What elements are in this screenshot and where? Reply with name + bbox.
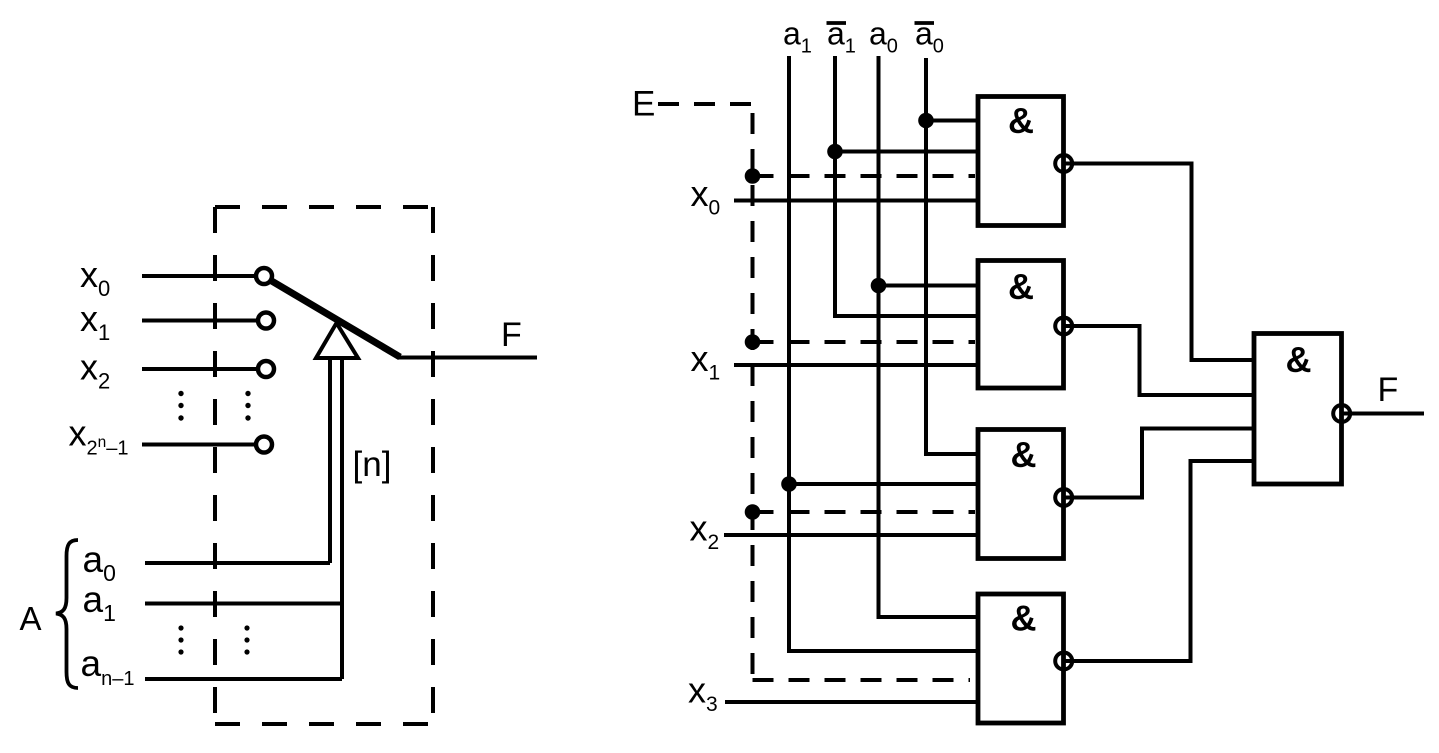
- wire G4 output to final gate: [1064, 461, 1255, 661]
- svg-text:x1: x1: [80, 298, 110, 345]
- contact circle x0: [256, 268, 272, 284]
- wire G1 output to final gate: [1064, 164, 1255, 361]
- junction dot a0 to G2: [871, 278, 887, 294]
- svg-text:&: &: [1008, 266, 1034, 307]
- inversion bubble G3 output: [1055, 489, 1072, 506]
- wire G2 output to final gate: [1064, 326, 1255, 395]
- junction dot a0-bar to G1: [918, 113, 934, 129]
- svg-text:a1: a1: [783, 16, 812, 58]
- dashed wire E branch to G1: [753, 174, 976, 178]
- svg-text:&: &: [1011, 434, 1037, 475]
- NAND gate G3 box: [978, 430, 1064, 559]
- vertical line a0 with bend into gate G4: [879, 56, 981, 617]
- dashed wire E branch to G3: [753, 510, 976, 514]
- selector arrow shaft left line: [328, 357, 332, 563]
- wire a0-bar tap to G1: [926, 119, 980, 123]
- svg-text:A: A: [20, 600, 42, 637]
- vertical line a1-bar with bend into gate G2: [835, 56, 980, 316]
- wire a1-bar tap to G1: [835, 150, 980, 154]
- dashed wire E horizontal: [658, 102, 753, 106]
- ellipsis dots between x2 and x2n-1 (left column): [178, 391, 183, 421]
- inversion bubble G5 output: [1333, 405, 1350, 422]
- wire x0 to G1: [734, 199, 980, 203]
- dashed enclosure box bottom edge: [215, 722, 433, 726]
- svg-text:x2: x2: [80, 347, 110, 394]
- ellipsis dots between a1 and an-1 (right column): [244, 625, 249, 654]
- ellipsis dots between a1 and an-1 (left column): [178, 625, 183, 654]
- contact circle x2: [258, 361, 274, 377]
- svg-text:x0: x0: [691, 173, 721, 220]
- vertical line a0-bar with bend into gate G3: [926, 58, 980, 454]
- wire x1 input: [142, 319, 256, 323]
- inversion bubble G4 output: [1055, 653, 1072, 670]
- wire G3 output to final gate: [1064, 429, 1255, 498]
- wire a0 input: [145, 561, 330, 565]
- junction dot E to G3: [745, 504, 761, 520]
- svg-text:a1: a1: [83, 579, 116, 626]
- wire x2 to G3: [724, 533, 980, 537]
- dashed enclosure box top edge: [215, 205, 433, 209]
- vertical line a1 with bend into gate G4: [789, 56, 980, 651]
- wire output F (left figure): [398, 356, 537, 360]
- svg-text:a0: a0: [869, 16, 898, 58]
- wire an-1 input: [145, 677, 342, 681]
- junction dot E to G2: [745, 334, 761, 350]
- selector arrow shaft right line: [340, 357, 344, 679]
- svg-text:&: &: [1011, 598, 1037, 639]
- wire a1 tap to G3: [789, 482, 980, 486]
- svg-text:F: F: [1378, 371, 1399, 409]
- dashed enclosure box right edge: [431, 207, 435, 724]
- dashed wire E vertical: [751, 104, 755, 680]
- svg-text:x2: x2: [690, 508, 720, 555]
- NAND gate G2 box: [978, 261, 1064, 389]
- dashed wire E branch to G2: [753, 340, 976, 344]
- switch arm (wiper): [270, 280, 400, 357]
- junction dot a1-bar to G1: [827, 144, 843, 160]
- ellipsis dots between x2 and x2n-1 (right column): [245, 391, 250, 421]
- wire a0 tap to G2: [879, 284, 981, 288]
- svg-text:x0: x0: [80, 254, 110, 301]
- wire x1 to G2: [734, 363, 980, 367]
- junction dot a1 to G3: [781, 476, 797, 492]
- overbar of a0-bar: [915, 21, 935, 25]
- NAND gate G5 (output) box: [1254, 334, 1342, 485]
- svg-text:E: E: [632, 85, 655, 124]
- NAND gate G4 box: [978, 594, 1064, 723]
- svg-text:x3: x3: [688, 670, 718, 717]
- overbar of a1-bar: [827, 21, 847, 25]
- contact circle x2^n-1: [256, 437, 272, 453]
- contact circle x1: [258, 313, 274, 329]
- svg-text:x1: x1: [691, 338, 721, 385]
- brace for address bus A: [56, 540, 78, 688]
- NAND gate G1 box: [978, 97, 1064, 226]
- svg-text:an–1: an–1: [81, 643, 135, 690]
- wire x0 input: [142, 274, 254, 278]
- wire x2 input: [142, 367, 256, 371]
- wire x3 to G4: [725, 700, 980, 704]
- svg-text:F: F: [501, 316, 522, 354]
- dashed wire E branch to G4: [753, 678, 971, 682]
- wire x2^n-1 input: [142, 443, 254, 447]
- svg-text:x2n–1: x2n–1: [69, 413, 129, 460]
- junction dot E to G1: [745, 168, 761, 184]
- svg-text:&: &: [1286, 339, 1312, 380]
- dashed enclosure box left edge: [213, 207, 217, 724]
- wire F output: [1342, 412, 1425, 416]
- inversion bubble G2 output: [1055, 318, 1072, 335]
- svg-text:&: &: [1008, 100, 1034, 141]
- wire a1 input: [145, 602, 342, 606]
- inversion bubble G1 output: [1055, 155, 1072, 172]
- svg-text:[n]: [n]: [353, 445, 392, 484]
- selector arrow head: [316, 323, 358, 358]
